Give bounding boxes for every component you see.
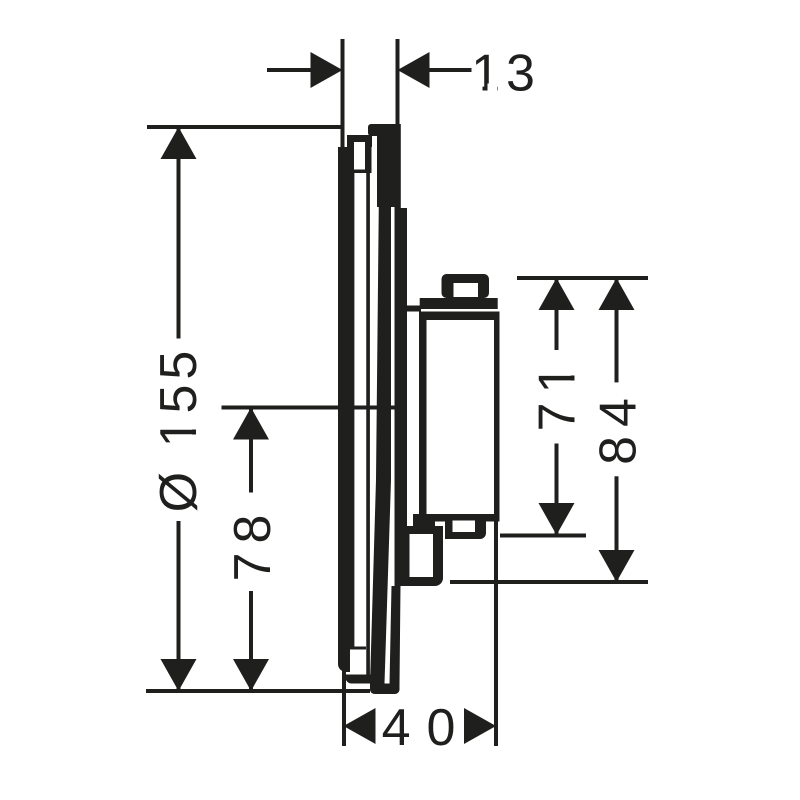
svg-text:Ø 155: Ø 155: [150, 346, 208, 513]
svg-text:40: 40: [382, 699, 472, 757]
svg-text:71: 71: [529, 356, 587, 432]
svg-text:84: 84: [590, 389, 648, 465]
svg-text:13: 13: [471, 45, 541, 103]
svg-text:78: 78: [224, 506, 282, 582]
